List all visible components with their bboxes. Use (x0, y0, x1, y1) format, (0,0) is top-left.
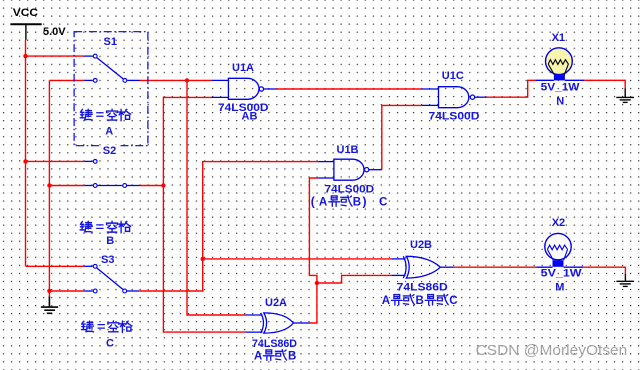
junction node A-xor-B (315, 281, 319, 285)
wire VCC rail vertical (25, 40, 27, 266)
U2A function label A xor B (254, 350, 296, 363)
junction node C (201, 257, 205, 261)
wire node A: S1 common to U1A input (140, 79, 211, 81)
wire lamp X2 to ground (583, 267, 625, 274)
wire GND rail vertical (48, 80, 50, 298)
xor gate U2B (392, 256, 454, 278)
U2B function label A xor B xor C (382, 294, 458, 307)
U1B function label (A xor B) C (311, 194, 388, 208)
svg-text:5V_1W: 5V_1W (541, 81, 581, 93)
S1 key label: 键 = 空格 (80, 109, 130, 121)
junction node VCC-S1 (23, 54, 27, 58)
svg-text:U2B: U2B (410, 239, 432, 251)
junction node A (185, 78, 189, 82)
nand gate U1B (318, 159, 382, 180)
wire U2B output to lamp X2 (454, 266, 537, 268)
xor gate U2A (245, 313, 309, 333)
svg-text:M: M (555, 281, 564, 293)
svg-text:5.0V: 5.0V (43, 26, 66, 38)
switch S2 label (on dashed box edge) (101, 145, 119, 156)
VCC power symbol (10, 24, 41, 40)
junction node GND-S2 (47, 183, 51, 187)
svg-text:A: A (105, 125, 113, 137)
nand gate U1A (211, 78, 276, 99)
switch S2 (84, 161, 140, 185)
wire XOR node branch to U2B input (317, 275, 392, 283)
svg-text:VCC: VCC (13, 7, 38, 19)
wire GND rail to S2 lower pin (49, 185, 84, 187)
svg-text:C: C (106, 337, 114, 349)
wire node A branch down to U2A (187, 80, 245, 315)
switch S1 (84, 56, 140, 80)
junction node GND-S3 (47, 289, 51, 293)
svg-text:C: C (379, 196, 387, 208)
svg-text:B: B (288, 350, 296, 362)
svg-text:B: B (106, 235, 114, 247)
svg-text:B: B (416, 295, 424, 307)
ground (lamp X1) (616, 89, 634, 103)
svg-text:A: A (254, 350, 262, 362)
svg-text:S2: S2 (103, 145, 116, 157)
wire U1B output to U1C input (382, 105, 422, 169)
ground (left, GND rail) (41, 297, 58, 314)
svg-text:C: C (449, 295, 457, 307)
svg-text:X2: X2 (552, 217, 565, 229)
svg-text:U1A: U1A (232, 62, 254, 74)
S3 key label: 键 = 空格 (81, 321, 131, 333)
wire U1A output to U1C input (276, 88, 421, 90)
svg-text:U1B: U1B (337, 144, 359, 156)
svg-text:X1: X1 (552, 32, 565, 44)
svg-text:74LS00D: 74LS00D (325, 184, 375, 196)
svg-text:U1C: U1C (442, 70, 464, 82)
wire node C: S3 common to U1B input (139, 162, 318, 291)
svg-text:S3: S3 (101, 254, 114, 266)
wire S1 lower pin to GND rail (49, 79, 84, 81)
svg-text:A: A (382, 295, 390, 307)
svg-text:A: A (319, 196, 327, 208)
svg-text:): ) (363, 194, 367, 208)
wire node B up to U1A input (163, 97, 211, 185)
wire node B: S2 common to junction (140, 185, 164, 187)
svg-text:74LS00D: 74LS00D (429, 111, 480, 123)
wire VCC to S3 upper pin (26, 265, 85, 267)
svg-text:74LS86D: 74LS86D (252, 338, 297, 350)
wire node C branch to U2B input (203, 258, 392, 260)
switch S1 selection dashed box (74, 32, 148, 146)
lamp X2 (off) (536, 233, 583, 267)
svg-text:S1: S1 (104, 36, 117, 48)
svg-text:B: B (353, 196, 361, 208)
svg-text:(: ( (311, 194, 315, 208)
wire U1C output to lamp X1 (486, 80, 535, 97)
svg-text:N: N (556, 96, 564, 108)
junction node B (161, 183, 165, 187)
switch S3 (84, 266, 139, 291)
wire VCC to S2 upper pin (26, 160, 85, 162)
nand gate U1C (422, 87, 487, 108)
ground (lamp X2) (616, 274, 634, 286)
svg-text:74LS86D: 74LS86D (397, 281, 448, 293)
junction node VCC-S2 (23, 159, 27, 163)
svg-text:5V_1W: 5V_1W (541, 267, 583, 279)
wire node B down to U2A input (163, 186, 245, 333)
svg-text:CSDN @MorleyOtsen: CSDN @MorleyOtsen (476, 343, 628, 359)
wire VCC to S1 upper pin (26, 55, 85, 57)
wire GND rail to S3 lower pin (49, 290, 84, 292)
lamp X1 (lit) (535, 48, 584, 81)
S2 key label: 键 = 空格 (80, 221, 130, 233)
wire lamp X1 to ground (584, 80, 625, 89)
svg-text:AB: AB (242, 111, 258, 123)
svg-text:U2A: U2A (265, 297, 287, 309)
wire U2A output riser (309, 178, 318, 323)
